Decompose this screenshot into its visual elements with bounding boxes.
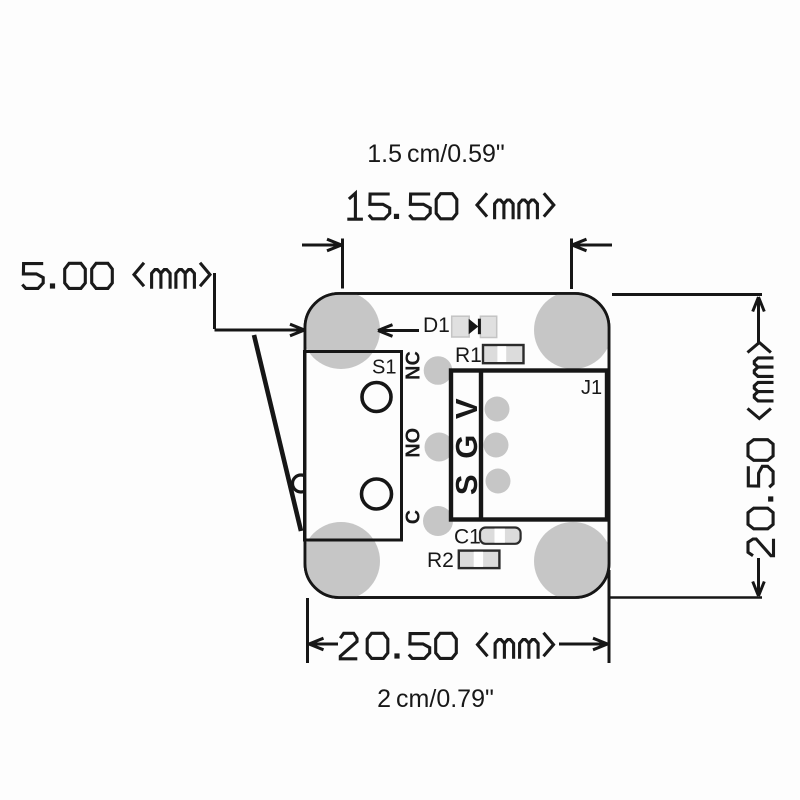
J1 pin 3 xyxy=(486,469,511,494)
switch lever xyxy=(254,335,301,531)
dimension 20.50 mm right xyxy=(610,295,764,598)
svg-text:C: C xyxy=(403,510,425,524)
svg-text:1.5 cm/0.59": 1.5 cm/0.59" xyxy=(367,140,505,168)
svg-text:R2: R2 xyxy=(427,549,454,572)
dimension 20.50 mm bottom xyxy=(308,570,610,663)
S1 hole top xyxy=(362,383,391,412)
lever roller xyxy=(293,470,323,500)
resistor R2 xyxy=(459,551,500,569)
dimension 15.50 mm top: left arrow xyxy=(302,239,343,289)
mounting pad bottom-left xyxy=(302,522,380,600)
mounting pad bottom-right xyxy=(534,522,612,600)
svg-text:NO: NO xyxy=(403,428,425,458)
pad NC xyxy=(424,356,453,385)
diode D1 symbol xyxy=(469,319,481,335)
label: dim text 20.50 (mm) bottom xyxy=(340,633,553,659)
svg-text:S1: S1 xyxy=(372,357,396,379)
mounting pad top-left xyxy=(302,291,380,369)
S1 hole bottom xyxy=(362,479,392,509)
svg-text:D1: D1 xyxy=(423,314,450,337)
diode D1 pads xyxy=(452,316,497,337)
J1 pin 1 xyxy=(485,397,510,422)
PCB board outline xyxy=(305,294,609,598)
svg-text:2 cm/0.79": 2 cm/0.79" xyxy=(377,685,494,713)
connector J1 body xyxy=(451,371,607,520)
svg-text:S G V: S G V xyxy=(449,395,484,495)
label: dim text 5.00 (mm) xyxy=(22,263,210,289)
J1 pin 2 xyxy=(484,433,509,458)
dimension 15.50 mm top: right arrow xyxy=(572,239,613,290)
label: dim text 20.50 (mm) right, rotated xyxy=(748,343,774,556)
label: dim text 15.50 (mm) xyxy=(347,193,554,219)
svg-text:NC: NC xyxy=(403,351,425,380)
mounting pad top-right xyxy=(534,291,612,369)
capacitor C1 xyxy=(480,528,521,544)
svg-text:C1: C1 xyxy=(454,526,481,549)
resistor R1 xyxy=(483,345,524,363)
svg-text:R1: R1 xyxy=(455,344,482,367)
pad C xyxy=(423,506,453,536)
pad NO xyxy=(425,433,454,462)
dimension 5.00 mm leader and arrows xyxy=(215,273,420,336)
svg-text:J1: J1 xyxy=(581,377,602,399)
switch S1 body xyxy=(305,352,402,541)
PCB outline restroke xyxy=(305,294,609,598)
